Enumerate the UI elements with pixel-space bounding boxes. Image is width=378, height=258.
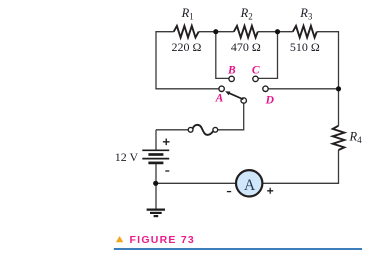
battery plus sign — [163, 139, 170, 146]
svg-text:D: D — [265, 95, 275, 107]
ammeter plus — [267, 188, 273, 194]
wire R3 to top-right corner — [317, 31, 339, 33]
ground — [147, 210, 165, 217]
battery 12V — [142, 150, 169, 163]
ammeter A — [236, 170, 262, 196]
junction node battery minus — [153, 181, 158, 186]
battery plate short — [148, 153, 163, 156]
figure rule — [114, 248, 362, 250]
wire D to right vertical — [268, 88, 338, 90]
svg-text:470 Ω: 470 Ω — [231, 40, 261, 54]
svg-text:C: C — [252, 65, 260, 77]
fuse left terminal — [188, 127, 193, 132]
switch pole contact — [241, 98, 246, 103]
battery plate long — [142, 158, 169, 160]
fuse element — [193, 125, 213, 135]
wire row A left — [155, 88, 219, 90]
svg-text:220 Ω: 220 Ω — [172, 40, 202, 54]
svg-text:FIGURE 73: FIGURE 73 — [130, 234, 196, 246]
ammeter minus — [227, 191, 231, 193]
switch contact B — [229, 76, 234, 81]
wire node2 down to C — [258, 32, 277, 79]
svg-text:A: A — [244, 177, 256, 194]
switch contact C — [253, 76, 258, 81]
switch contact A — [219, 86, 224, 91]
fuse right terminal — [213, 127, 218, 132]
svg-text:R1: R1 — [181, 6, 194, 22]
junction node right (D row / R4) — [336, 86, 341, 91]
junction node2 (R2/R3) — [275, 29, 280, 34]
switch contact D — [263, 86, 268, 91]
wire fuse to switch pole — [218, 103, 244, 130]
svg-text:R2: R2 — [240, 6, 253, 22]
resistor R4 — [333, 126, 345, 150]
svg-text:510 Ω: 510 Ω — [290, 40, 320, 54]
wire top — [155, 31, 338, 209]
wire battery bottom lead to ground — [155, 164, 157, 210]
resistor R1 — [174, 26, 199, 38]
svg-text:R4: R4 — [349, 130, 363, 146]
battery plate short bottom — [148, 162, 163, 165]
wire right vertical upper — [338, 31, 340, 126]
junction node1 (R1/R2) — [213, 29, 218, 34]
wire R1 to R2 — [199, 31, 234, 33]
wire top-left to R1 — [156, 31, 174, 33]
switch arm arrow to A — [225, 91, 243, 99]
resistor R2 — [234, 26, 258, 38]
svg-text:12 V: 12 V — [115, 150, 139, 164]
wire ammeter left to battery node — [156, 182, 236, 184]
figure caption triangle — [116, 236, 123, 242]
wire battery top lead — [155, 130, 157, 150]
wire left vertical — [155, 31, 157, 89]
wire battery to fuse — [156, 129, 188, 131]
wire right vertical lower — [263, 150, 339, 183]
svg-text:A: A — [215, 93, 224, 105]
battery minus sign — [165, 170, 169, 172]
wire R2 to R3 — [258, 31, 293, 33]
battery plate long top — [142, 149, 169, 151]
resistor R3 — [293, 26, 317, 38]
wire node1 down to B — [216, 32, 229, 79]
svg-text:B: B — [227, 65, 236, 77]
svg-text:R3: R3 — [299, 6, 313, 22]
